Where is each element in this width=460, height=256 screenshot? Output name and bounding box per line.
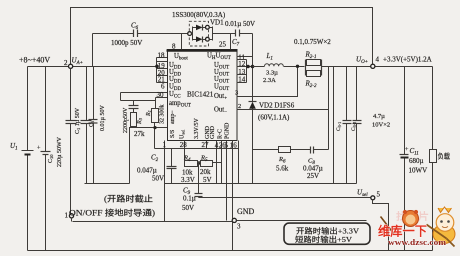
pin 8 riser (181, 34, 183, 50)
wire R3 bottom (130, 128, 168, 184)
resistor R3 (131, 113, 137, 127)
capacitor C6 (92, 34, 94, 67)
svg-text:0.01µ 50V: 0.01µ 50V (100, 105, 106, 131)
wire riser output to snubber (328, 67, 330, 150)
svg-text:GND: GND (237, 207, 255, 216)
svg-text:220µ 50WV: 220µ 50WV (57, 136, 63, 167)
pin risers bottom (164, 141, 166, 222)
node 3 GND (232, 218, 236, 222)
svg-text:0.047µ: 0.047µ (137, 167, 157, 175)
svg-text:VD1: VD1 (210, 19, 224, 27)
bus under IC (155, 148, 239, 150)
svg-text:3: 3 (235, 90, 238, 97)
svg-text:25V: 25V (307, 172, 319, 180)
svg-text:4: 4 (376, 56, 380, 64)
svg-text:14: 14 (238, 76, 246, 84)
svg-text:27: 27 (202, 141, 210, 149)
resistor R4 (185, 161, 198, 167)
wire pin30 stub (156, 97, 168, 99)
wire switch bus (252, 34, 254, 102)
node 5 (371, 196, 375, 200)
resistor R5 (197, 161, 200, 164)
wire Usel rail (199, 197, 371, 199)
wire Out+ (237, 67, 298, 97)
capacitor C3-2 (356, 67, 358, 121)
svg-text:C3-2: C3-2 (351, 122, 357, 131)
capacitor C3 (93, 67, 95, 120)
inductor L1 (253, 66, 265, 68)
svg-text:1: 1 (163, 141, 167, 149)
svg-text:3: 3 (237, 223, 241, 231)
pin 11 stub (237, 56, 253, 58)
svg-text:2200p50V: 2200p50V (123, 107, 129, 133)
wire Out- (237, 109, 329, 111)
svg-text:1: 1 (65, 212, 69, 220)
svg-text:0.1,0.75W×2: 0.1,0.75W×2 (294, 38, 331, 46)
node dot R1/R3 (153, 126, 156, 129)
wire bottom rail (28, 250, 433, 252)
svg-text:5: 5 (377, 191, 381, 199)
svg-text:Usel: Usel (180, 129, 186, 139)
diode VD2 (249, 101, 257, 103)
svg-text:amp−: amp− (170, 110, 176, 124)
wire pin 6 stub (121, 92, 168, 94)
wire input rail (28, 66, 157, 68)
svg-text:10V×2: 10V×2 (372, 122, 390, 129)
svg-text:(开路时截止: (开路时截止 (104, 194, 153, 204)
capacitor C7 (235, 30, 237, 37)
info box (284, 223, 370, 244)
wire ground rail mid (165, 183, 357, 185)
capacitor C8 (310, 147, 312, 154)
wire top rail (71, 8, 373, 65)
svg-text:30: 30 (157, 91, 165, 99)
svg-text:50V: 50V (182, 204, 194, 212)
svg-text:C3-1: C3-1 (336, 122, 342, 131)
capacitor C9 (198, 163, 200, 194)
svg-text:3.3V: 3.3V (181, 176, 195, 184)
pin 18 stub (157, 57, 168, 59)
svg-text:负载: 负载 (438, 152, 451, 161)
svg-text:0.1µ: 0.1µ (183, 195, 196, 203)
svg-text:20k: 20k (200, 168, 211, 176)
svg-text:1000p 50V: 1000p 50V (111, 39, 142, 47)
svg-text:2.3A: 2.3A (263, 77, 276, 84)
resistor R1 (152, 109, 159, 123)
svg-text:18: 18 (158, 52, 166, 60)
svg-text:2: 2 (238, 103, 241, 110)
svg-text:(60V,1.1A): (60V,1.1A) (258, 114, 290, 122)
svg-text:6: 6 (161, 83, 165, 91)
svg-text:16: 16 (230, 141, 238, 149)
capacitor C4 (121, 100, 156, 102)
svg-text:3.3V/5V: 3.3V/5V (194, 118, 200, 140)
svg-text:8: 8 (172, 43, 176, 51)
svg-text:R-C: R-C (218, 129, 224, 139)
svg-text:R1: R1 (146, 110, 152, 117)
svg-text:5.6k: 5.6k (276, 165, 289, 173)
svg-text:25: 25 (219, 41, 227, 49)
svg-text:0.01µ 50V: 0.01µ 50V (225, 20, 255, 28)
svg-text:ON/OFF 接地时导通): ON/OFF 接地时导通) (69, 208, 155, 218)
pin boxes 12 13 14 (237, 59, 247, 61)
resistor R6 (253, 149, 279, 151)
pin 25 riser (230, 34, 232, 50)
IC BIC1421 (168, 50, 238, 141)
svg-text:BIC1421: BIC1421 (187, 91, 214, 99)
svg-text:32 300k: 32 300k (160, 105, 166, 125)
wire left ground seg (85, 183, 130, 185)
svg-text:4.7µ: 4.7µ (373, 113, 385, 120)
wire output rail (322, 66, 433, 68)
svg-text:3.3µ: 3.3µ (266, 70, 278, 77)
capacitor C1 (70, 69, 72, 121)
svg-text:GND: GND (210, 125, 216, 139)
capacitor C2 (171, 149, 173, 167)
node 4 (371, 64, 375, 68)
svg-text:短路时输出+5V: 短路时输出+5V (295, 234, 353, 244)
watermark (378, 207, 455, 247)
node 1 ON/OFF (69, 214, 73, 218)
node 2 (69, 64, 73, 68)
wire riser to ground rail (333, 67, 335, 184)
svg-text:+3.3V(+5V)1.2A: +3.3V(+5V)1.2A (383, 56, 432, 64)
svg-text:www.dzsc.com: www.dzsc.com (388, 237, 447, 247)
svg-text:12: 12 (238, 60, 246, 68)
capacitor C11 (404, 67, 406, 155)
svg-text:R3: R3 (137, 117, 143, 125)
svg-text:28: 28 (180, 141, 188, 149)
svg-text:27k: 27k (134, 130, 145, 138)
svg-text:PGND: PGND (225, 122, 231, 139)
svg-text:+8~+40V: +8~+40V (19, 56, 50, 65)
svg-text:5V: 5V (203, 176, 212, 184)
svg-text:10WV: 10WV (409, 167, 428, 175)
pin boxes 19 20 21 (157, 61, 168, 63)
battery U1 (27, 67, 29, 151)
capacitor C5 (86, 67, 88, 121)
svg-text:680µ: 680µ (409, 157, 424, 165)
svg-text:VD2 D1FS6: VD2 D1FS6 (259, 102, 295, 110)
svg-text:50V: 50V (152, 175, 164, 183)
svg-text:S/S: S/S (170, 130, 176, 138)
svg-text:开路时输出+3.3V: 开路时输出+3.3V (296, 225, 360, 235)
svg-text:2: 2 (64, 59, 68, 67)
capacitor C3-1 (346, 67, 348, 121)
capacitor C10 (45, 67, 47, 152)
svg-text:13: 13 (238, 68, 246, 76)
svg-text:5: 5 (225, 141, 229, 149)
load resistor (432, 67, 434, 150)
svg-text:C10: C10 (48, 154, 54, 163)
